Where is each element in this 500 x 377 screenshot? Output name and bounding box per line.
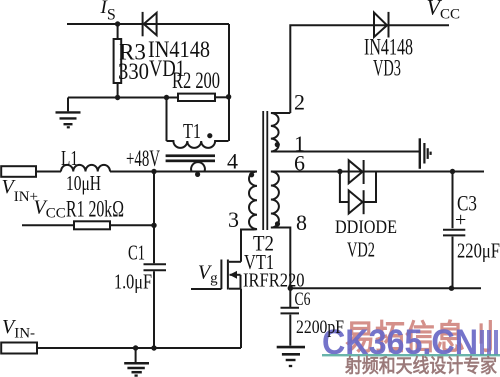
svg-text:+: + <box>455 209 466 231</box>
capacitor C6 <box>281 288 345 345</box>
ground: C6 ground <box>277 347 305 366</box>
svg-text:10μH: 10μH <box>66 171 101 195</box>
svg-text:T1: T1 <box>183 119 201 143</box>
svg-text:2200pF: 2200pF <box>296 317 344 338</box>
T2 winding 6-8 <box>271 172 280 228</box>
transformer T1 <box>166 119 229 177</box>
wire: pin2 to VCC rail <box>290 25 449 113</box>
wire: bottom output rail <box>290 287 481 289</box>
resistor R2 <box>172 68 229 101</box>
svg-text:R2 200: R2 200 <box>172 68 220 93</box>
diode VD3 <box>364 12 413 81</box>
terminal VIN- <box>1 343 37 354</box>
node: C6 junction <box>288 286 293 291</box>
inductor L1 <box>61 146 110 195</box>
T2 winding 2-1 <box>271 113 419 152</box>
node: R3 top junction <box>115 21 120 26</box>
capacitor C1 <box>114 241 166 294</box>
node: T1 loop left junction <box>164 95 169 100</box>
wire: pin8 to bottom output rail <box>271 228 290 289</box>
capacitor C3 <box>443 172 500 289</box>
ground: primary ground <box>124 348 149 376</box>
wire: sense ground rail <box>68 97 178 99</box>
svg-text:VD2: VD2 <box>347 238 375 262</box>
wire: secondary top output rail <box>271 171 484 173</box>
node: C1 rail bottom junction <box>151 345 156 350</box>
T2 winding 4-3 <box>249 172 257 230</box>
wire: source to bottom rail <box>240 289 242 348</box>
node: output minus junction <box>449 286 454 291</box>
wire: bottom rail <box>37 347 241 349</box>
svg-text:220μF: 220μF <box>457 239 500 263</box>
node: R1 junction <box>151 223 156 228</box>
resistor R3 <box>114 24 149 98</box>
wire: IS input top rail <box>67 23 229 25</box>
MOSFET VT1 <box>191 250 305 292</box>
svg-text:+48V: +48V <box>126 146 160 171</box>
diode VD1 <box>143 12 210 81</box>
node: R3 bottom junction <box>115 95 120 100</box>
svg-text:射频和天线设计专家: 射频和天线设计专家 <box>344 354 498 377</box>
svg-text:R1 20kΩ: R1 20kΩ <box>66 196 124 221</box>
svg-text:4: 4 <box>227 148 238 173</box>
svg-text:2: 2 <box>294 90 305 115</box>
svg-text:C6: C6 <box>295 289 311 310</box>
terminal VIN+ <box>1 166 36 177</box>
svg-text:C1: C1 <box>128 241 145 265</box>
svg-text:DDIODE: DDIODE <box>335 217 397 238</box>
svg-text:330: 330 <box>118 59 149 84</box>
transformer T2 core <box>263 111 267 230</box>
wire: diode cathode down to R2/T1 loop <box>228 24 230 141</box>
wire: T1 loop left vertical <box>166 98 168 142</box>
wire: VIN+ to L1 <box>36 171 61 173</box>
svg-text:L1: L1 <box>61 146 78 170</box>
node: R2 right junction <box>226 94 231 99</box>
node: output plus junction <box>450 169 455 174</box>
node: bias rail top junction <box>151 169 156 174</box>
ground: sense ground <box>56 98 81 128</box>
wire: bias rail vertical <box>153 172 155 349</box>
svg-text:8: 8 <box>296 210 307 235</box>
wire: T2 pin3 to drain <box>241 230 255 262</box>
resistor R1 <box>22 196 154 229</box>
node: ground junction <box>133 345 138 350</box>
svg-text:1.0μF: 1.0μF <box>114 270 152 294</box>
diode pair VD2 <box>335 160 397 262</box>
watermark CK365.CN <box>322 318 500 377</box>
ground: VCC reference sideways <box>420 138 431 169</box>
svg-text:3: 3 <box>228 207 239 232</box>
svg-text:VD3: VD3 <box>373 56 401 81</box>
svg-text:T2: T2 <box>253 231 274 256</box>
wire: L1 to T2 pin4 <box>110 171 257 173</box>
